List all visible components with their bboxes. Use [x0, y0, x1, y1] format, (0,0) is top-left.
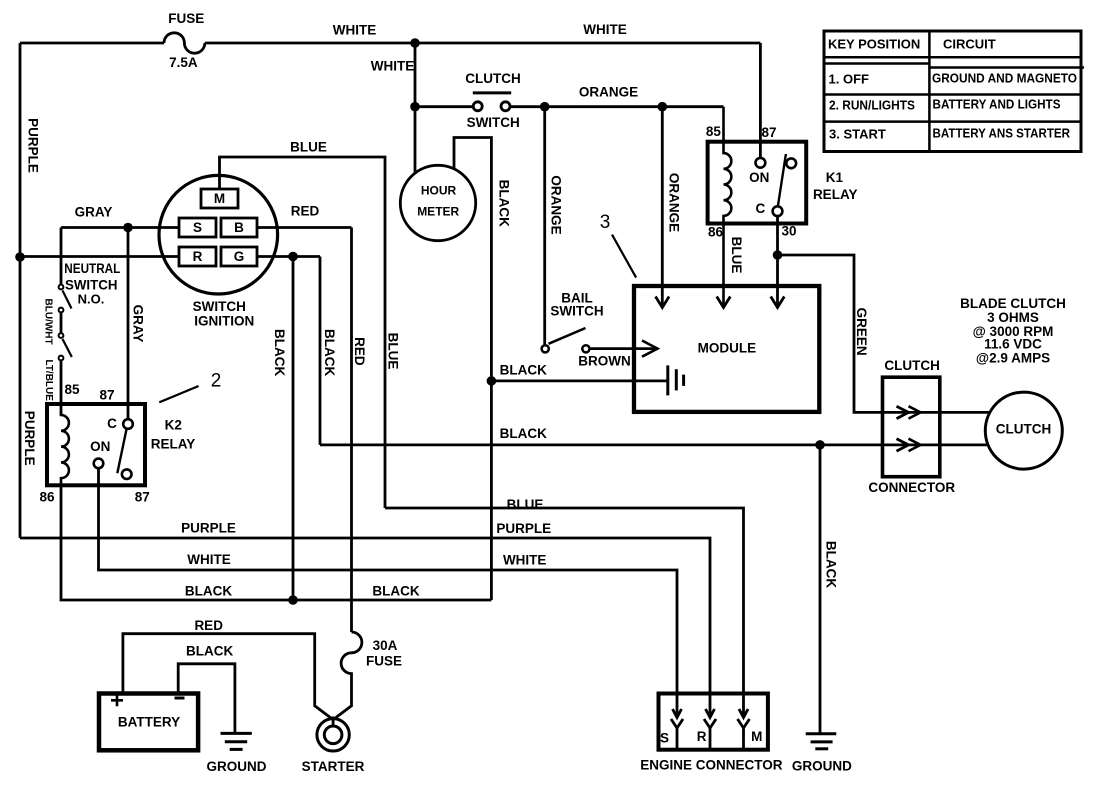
svg-text:87: 87	[135, 490, 150, 505]
svg-text:2: 2	[211, 371, 222, 392]
svg-text:87: 87	[761, 125, 776, 140]
svg-text:S: S	[193, 220, 202, 235]
wire W18 BLACK drop from G junction	[292, 257, 295, 601]
clutch connector chevrons pin 1	[897, 406, 909, 418]
svg-text:BATTERY: BATTERY	[118, 715, 180, 730]
svg-text:MODULE: MODULE	[698, 341, 757, 356]
junction G wire / black drop	[288, 252, 298, 262]
module internal ground wire	[491, 379, 667, 382]
svg-text:RED: RED	[352, 337, 367, 366]
svg-text:3 OHMS: 3 OHMS	[987, 310, 1039, 325]
svg-text:K1: K1	[826, 170, 844, 185]
svg-text:2. RUN/LIGHTS: 2. RUN/LIGHTS	[829, 98, 915, 113]
wire W12 GRAY from S terminal	[61, 226, 179, 229]
wire W11 BLUE from M terminal	[220, 157, 386, 508]
engine connector S pin arrows	[673, 709, 682, 718]
terminal B box	[221, 218, 257, 237]
svg-text:R: R	[193, 249, 203, 264]
relay K1 coil and pin85/86 wire	[724, 107, 732, 307]
svg-text:GREEN: GREEN	[854, 308, 869, 356]
module box	[634, 286, 819, 412]
relay K2 contact ON	[94, 459, 104, 469]
svg-text:11.6 VDC: 11.6 VDC	[984, 337, 1042, 352]
hour meter body	[400, 165, 475, 240]
svg-text:SWITCH: SWITCH	[467, 115, 520, 130]
starter stub	[332, 717, 335, 728]
svg-text:ORANGE: ORANGE	[548, 175, 563, 234]
svg-text:LT/BLUE: LT/BLUE	[43, 359, 54, 401]
svg-text:CLUTCH: CLUTCH	[996, 422, 1052, 437]
bail switch contact 2	[582, 345, 589, 352]
wire W20 gray to neutral switch	[60, 228, 63, 285]
wire W16 from R terminal to left bus	[20, 255, 179, 258]
bail switch contact 1	[542, 345, 549, 352]
svg-text:M: M	[751, 729, 762, 744]
clutch switch contact left	[473, 102, 482, 111]
svg-text:SWITCH: SWITCH	[193, 299, 246, 314]
neutral switch blade 1	[63, 291, 72, 309]
svg-text:S: S	[660, 731, 669, 746]
svg-text:7.5A: 7.5A	[169, 55, 198, 70]
svg-text:RELAY: RELAY	[151, 437, 196, 452]
arrowhead module input 1	[656, 297, 670, 308]
neutral switch contact 3	[59, 333, 64, 338]
svg-text:GROUND: GROUND	[792, 759, 852, 774]
fuse F1 7.5A symbol	[164, 33, 205, 53]
terminal M box	[201, 189, 238, 208]
bail switch blade	[549, 328, 586, 344]
relay K2 contact C	[123, 419, 133, 429]
wire W34 connector to clutch (pin1)	[883, 411, 991, 414]
starter outer ring	[317, 719, 349, 751]
svg-text:BLUE: BLUE	[729, 237, 744, 274]
wire W33 BLACK battery negative to ground	[178, 664, 235, 734]
table spacer rule right	[929, 66, 1084, 69]
svg-text:PURPLE: PURPLE	[26, 118, 41, 173]
svg-text:WHITE: WHITE	[187, 552, 231, 567]
wire W35 connector to clutch (pin2)	[883, 443, 988, 446]
engine connector R pin arrows	[706, 709, 715, 718]
svg-text:ON: ON	[90, 439, 110, 454]
wire W26 BLUE bus to engine connector M	[385, 508, 744, 716]
relay K2 contact 87 (bottom)	[122, 469, 132, 479]
svg-text:GRAY: GRAY	[131, 305, 146, 343]
table row rule 1	[824, 93, 1081, 96]
wire W21 between neutral contacts	[60, 312, 63, 333]
svg-text:@2.9 AMPS: @2.9 AMPS	[976, 350, 1050, 365]
svg-text:30A: 30A	[373, 638, 398, 653]
svg-text:G: G	[234, 249, 245, 264]
svg-text:B: B	[234, 220, 244, 235]
svg-text:ORANGE: ORANGE	[667, 173, 682, 232]
svg-text:BLACK: BLACK	[186, 644, 233, 659]
clutch connector chevrons pin 2	[897, 439, 909, 451]
clutch switch contact right	[501, 102, 510, 111]
clutch body	[985, 392, 1062, 469]
relay K2 box	[47, 404, 145, 485]
relay K1 contact C	[773, 206, 783, 216]
svg-text:30: 30	[781, 224, 796, 239]
svg-text:BLACK: BLACK	[322, 329, 337, 376]
junction black clutch bus / ground drop	[815, 440, 825, 450]
svg-text:WHITE: WHITE	[333, 23, 377, 38]
wire W4 PURPLE left vertical	[19, 43, 22, 538]
junction pin30 / green branch	[773, 250, 783, 260]
svg-text:SWITCH: SWITCH	[65, 277, 118, 292]
svg-text:GROUND: GROUND	[207, 759, 267, 774]
svg-text:ON: ON	[749, 170, 769, 185]
svg-text:NEUTRAL: NEUTRAL	[64, 261, 120, 276]
clutch connector box	[883, 377, 940, 477]
engine connector box	[659, 694, 768, 750]
svg-text:GROUND AND MAGNETO: GROUND AND MAGNETO	[932, 71, 1077, 86]
svg-text:SWITCH: SWITCH	[550, 303, 603, 318]
terminal S box	[179, 218, 216, 237]
relay K1 blade	[778, 154, 786, 206]
svg-text:BLACK: BLACK	[496, 180, 511, 227]
svg-text:BLUE: BLUE	[290, 140, 327, 155]
svg-text:IGNITION: IGNITION	[194, 313, 254, 328]
svg-text:STARTER: STARTER	[302, 759, 365, 774]
neutral switch blade 2	[63, 339, 72, 357]
svg-text:BLACK: BLACK	[824, 541, 839, 588]
junction orange bus / bail-switch drop	[540, 102, 550, 112]
wire W10 ORANGE drop to module input 1	[661, 107, 664, 307]
relay K2 coil	[61, 412, 69, 485]
junction gray / K2 coil branch	[123, 223, 133, 233]
wire W8 hour-meter BLACK return	[454, 138, 491, 601]
svg-text:PURPLE: PURPLE	[181, 521, 236, 536]
svg-text:K2: K2	[165, 418, 182, 433]
svg-text:R: R	[697, 729, 707, 744]
ground symbol (battery)	[221, 732, 252, 735]
neutral switch contact 4	[59, 356, 64, 361]
svg-text:PURPLE: PURPLE	[22, 411, 37, 466]
wire W23 K1 C to pin 30	[776, 216, 779, 306]
table header rule	[824, 56, 1081, 59]
key position table frame	[824, 31, 1081, 152]
svg-text:RELAY: RELAY	[813, 187, 858, 202]
wire W15 RED drop to 30A fuse	[350, 228, 353, 633]
svg-text:C: C	[756, 201, 766, 216]
svg-text:RED: RED	[194, 618, 223, 633]
relay K1 contact ON	[756, 158, 766, 168]
svg-text:3: 3	[600, 212, 611, 233]
clutch switch actuator bar	[473, 91, 511, 94]
junction orange bus / module drop	[658, 102, 668, 112]
svg-text:87: 87	[99, 388, 114, 403]
svg-text:86: 86	[708, 224, 724, 239]
table column divider	[928, 31, 931, 152]
svg-text:GRAY: GRAY	[75, 205, 113, 220]
svg-text:WHITE: WHITE	[371, 59, 415, 74]
wire W19 BLACK drop from G to clutch-connector bus	[319, 257, 322, 445]
svg-text:BLACK: BLACK	[185, 584, 232, 599]
svg-text:CLUTCH: CLUTCH	[465, 71, 521, 86]
relay K1 contact 87 (top right)	[786, 158, 796, 168]
terminal G box	[221, 247, 257, 266]
svg-text:ORANGE: ORANGE	[579, 85, 638, 100]
svg-text:WHITE: WHITE	[583, 22, 627, 37]
ground symbol (module)	[666, 365, 669, 395]
svg-text:BLUE: BLUE	[385, 333, 400, 370]
svg-text:BROWN: BROWN	[578, 353, 631, 368]
svg-text:85: 85	[706, 124, 722, 139]
relay K2 blade	[117, 429, 126, 473]
wire W17 from G terminal	[257, 255, 320, 258]
wire W13 GRAY drop to K2 pin 87	[127, 228, 130, 420]
svg-text:FUSE: FUSE	[168, 11, 204, 26]
wire W22 neutral switch to K2 pin 85	[60, 360, 63, 415]
engine connector M pin arrows	[739, 709, 748, 718]
ground symbol (engine)	[806, 732, 837, 735]
svg-text:86: 86	[39, 490, 55, 505]
svg-text:BLUE: BLUE	[507, 497, 544, 512]
table row rule 2	[824, 120, 1081, 123]
junction top bus / hour-meter branch	[410, 38, 420, 48]
battery - mark	[175, 697, 185, 700]
arrowhead module input 3	[771, 297, 785, 308]
wire W24 GREEN to clutch connector	[778, 255, 883, 412]
svg-text:KEY POSITION: KEY POSITION	[828, 37, 920, 52]
wire W9 ORANGE drop to bail switch	[543, 107, 546, 345]
neutral switch contact 1	[59, 285, 64, 290]
terminal R box	[179, 247, 216, 266]
svg-text:ENGINE CONNECTOR: ENGINE CONNECTOR	[640, 758, 783, 773]
svg-text:RED: RED	[291, 204, 320, 219]
svg-text:WHITE: WHITE	[503, 552, 547, 567]
battery box	[99, 694, 198, 751]
junction left bus / ignition R wire	[15, 252, 25, 262]
ignition switch body	[159, 175, 278, 294]
svg-text:CLUTCH: CLUTCH	[884, 358, 940, 373]
wire W31 BLACK drop to engine ground	[819, 445, 822, 734]
svg-text:M: M	[214, 191, 225, 206]
svg-text:BLU/WHT: BLU/WHT	[42, 299, 53, 345]
wire W30 BLACK bus to clutch connector and ground	[320, 443, 883, 446]
svg-text:CONNECTOR: CONNECTOR	[868, 480, 955, 495]
svg-text:BLACK: BLACK	[372, 584, 419, 599]
junction black bus / G drop	[288, 595, 298, 605]
wire W5 white drop to hour meter	[414, 43, 417, 173]
svg-text:FUSE: FUSE	[366, 654, 402, 669]
callout 2 pointer line	[159, 386, 198, 402]
svg-text:PURPLE: PURPLE	[496, 521, 551, 536]
wire W27 PURPLE bus to engine connector R	[20, 538, 710, 716]
table spacer rule left	[824, 62, 929, 65]
svg-text:BLACK: BLACK	[272, 329, 287, 376]
wire W32 RED battery positive	[123, 634, 333, 720]
neutral switch contact 2	[59, 308, 64, 313]
svg-text:METER: METER	[417, 205, 459, 219]
wire W6 clutch-switch feed	[415, 105, 473, 108]
relay K1 box	[708, 142, 807, 224]
starter inner ring	[324, 726, 342, 744]
svg-text:3. START: 3. START	[829, 126, 886, 141]
fuse F2 30A symbol and wire to starter	[333, 632, 362, 720]
svg-text:CIRCUIT: CIRCUIT	[943, 37, 996, 52]
callout 3 pointer line	[612, 235, 636, 278]
wire W3 white drop to K1 pin 87	[759, 43, 762, 158]
wire W7 ORANGE bus from clutch switch to K1-85	[510, 105, 723, 108]
junction black return / module ground branch	[487, 376, 497, 386]
svg-text:BLACK: BLACK	[500, 362, 547, 377]
wire W25 BROWN into module with arrow	[590, 347, 655, 350]
svg-text:1. OFF: 1. OFF	[829, 72, 870, 87]
wire W2 top WHITE bus to K1-87	[205, 42, 761, 45]
svg-text:85: 85	[64, 382, 80, 397]
svg-text:BLADE CLUTCH: BLADE CLUTCH	[960, 296, 1066, 311]
svg-text:BLACK: BLACK	[500, 426, 547, 441]
arrowhead module input 2	[717, 297, 731, 308]
wire W29 BLACK bus from K2-86	[61, 485, 491, 600]
junction white drop / clutch switch feed	[410, 102, 420, 112]
battery + mark	[111, 694, 123, 706]
svg-text:BATTERY AND LIGHTS: BATTERY AND LIGHTS	[933, 97, 1061, 112]
svg-text:BATTERY ANS STARTER: BATTERY ANS STARTER	[933, 126, 1071, 141]
svg-text:HOUR: HOUR	[421, 184, 457, 198]
wire W14 RED from B terminal	[257, 226, 352, 229]
wire W28 WHITE bus from K2-ON to engine connector S	[99, 468, 678, 716]
wire W1 top feed left segment	[20, 42, 164, 45]
svg-text:N.O.: N.O.	[78, 291, 105, 306]
svg-text:C: C	[107, 416, 117, 431]
